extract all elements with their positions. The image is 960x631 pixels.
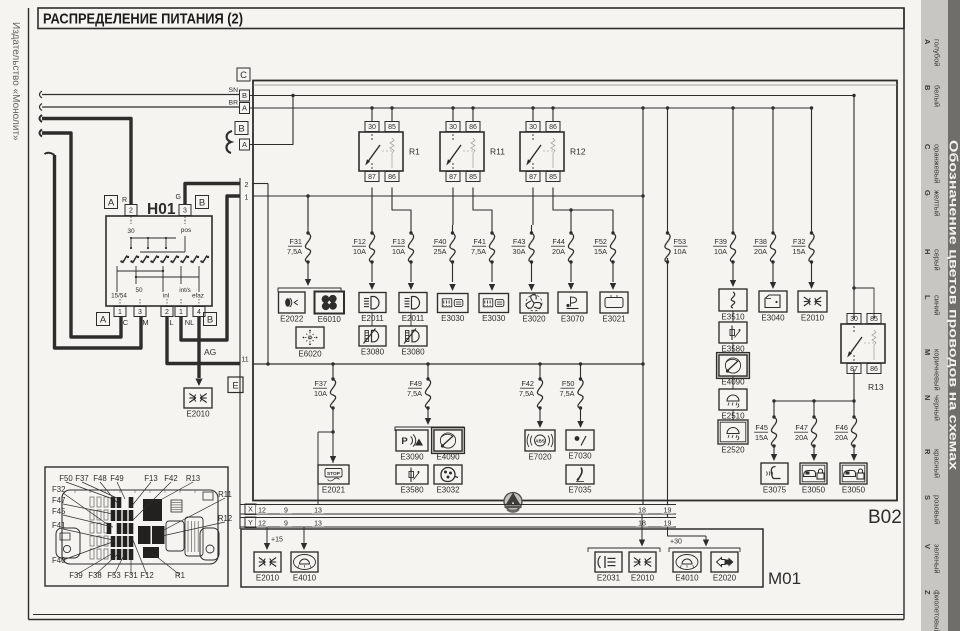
svg-text:BR: BR <box>229 100 239 107</box>
svg-text:E: E <box>232 381 238 392</box>
svg-text:РАСПРЕДЕЛЕНИЕ ПИТАНИЯ (2): РАСПРЕДЕЛЕНИЕ ПИТАНИЯ (2) <box>43 11 243 28</box>
svg-text:F38: F38 <box>754 237 767 246</box>
svg-text:R: R <box>923 449 932 455</box>
svg-text:B: B <box>238 123 244 134</box>
svg-text:F53: F53 <box>107 571 120 580</box>
svg-text:E4090: E4090 <box>436 453 460 462</box>
svg-text:оранжевый: оранжевый <box>933 144 942 183</box>
svg-text:1: 1 <box>179 309 183 316</box>
svg-text:E3040: E3040 <box>761 314 785 323</box>
svg-text:F47: F47 <box>795 423 808 432</box>
svg-text:E3020: E3020 <box>522 315 546 324</box>
svg-text:15A: 15A <box>793 247 806 256</box>
svg-text:7,5A: 7,5A <box>519 389 534 398</box>
svg-text:ABS: ABS <box>535 439 545 444</box>
svg-text:87: 87 <box>529 174 537 181</box>
svg-text:E2010: E2010 <box>256 574 280 583</box>
svg-text:E3080: E3080 <box>401 348 425 357</box>
svg-text:F38: F38 <box>88 571 101 580</box>
svg-text:F50: F50 <box>562 379 575 388</box>
svg-text:L: L <box>169 318 173 327</box>
svg-text:F40: F40 <box>434 237 447 246</box>
svg-text:87: 87 <box>368 174 376 181</box>
svg-text:25A: 25A <box>434 247 447 256</box>
svg-text:9: 9 <box>284 507 288 514</box>
svg-text:87: 87 <box>449 174 457 181</box>
svg-text:R12: R12 <box>218 514 232 523</box>
svg-text:R12: R12 <box>570 147 586 157</box>
svg-text:Z: Z <box>923 590 932 595</box>
svg-text:F53: F53 <box>674 237 687 246</box>
svg-text:7,5A: 7,5A <box>287 247 302 256</box>
svg-text:efaz: efaz <box>192 293 204 300</box>
svg-text:синий: синий <box>933 295 942 315</box>
svg-text:13: 13 <box>314 520 322 527</box>
svg-text:10A: 10A <box>314 389 327 398</box>
svg-text:13: 13 <box>314 507 322 514</box>
svg-text:F45: F45 <box>52 507 66 516</box>
svg-text:85: 85 <box>469 174 477 181</box>
svg-text:Обозначение цветов проводов на: Обозначение цветов проводов на схемах <box>947 140 959 471</box>
svg-text:2: 2 <box>165 309 169 316</box>
svg-text:E4010: E4010 <box>293 574 317 583</box>
svg-text:F50: F50 <box>59 474 73 483</box>
svg-text:белый: белый <box>933 85 942 107</box>
svg-text:9: 9 <box>284 520 288 527</box>
svg-text:N: N <box>923 395 932 400</box>
svg-text:pos: pos <box>181 227 192 234</box>
svg-text:10A: 10A <box>353 247 366 256</box>
svg-text:E3021: E3021 <box>602 315 626 324</box>
svg-text:85: 85 <box>549 174 557 181</box>
svg-text:C: C <box>240 70 247 81</box>
svg-text:B: B <box>207 314 213 325</box>
svg-text:M: M <box>142 318 148 327</box>
svg-text:18: 18 <box>638 507 646 514</box>
svg-text:R: R <box>122 197 127 204</box>
svg-text:10A: 10A <box>392 247 405 256</box>
svg-text:F42: F42 <box>521 379 534 388</box>
svg-text:C: C <box>123 318 129 327</box>
svg-text:L: L <box>923 295 932 300</box>
svg-text:E2520: E2520 <box>721 446 745 455</box>
svg-text:E3030: E3030 <box>441 314 465 323</box>
svg-text:20A: 20A <box>835 433 848 442</box>
svg-text:H: H <box>923 249 932 254</box>
svg-text:E2031: E2031 <box>597 574 621 583</box>
svg-text:фиолетовый: фиолетовый <box>933 590 942 631</box>
svg-text:F44: F44 <box>552 237 565 246</box>
svg-text:P: P <box>401 436 408 447</box>
svg-text:7,5A: 7,5A <box>471 247 486 256</box>
svg-text:STOP: STOP <box>327 471 341 477</box>
svg-text:M: M <box>923 349 932 355</box>
svg-text:E2010: E2010 <box>801 314 825 323</box>
svg-text:M01: M01 <box>768 569 801 588</box>
svg-text:E3032: E3032 <box>436 486 460 495</box>
svg-text:F48: F48 <box>93 474 106 483</box>
svg-text:V: V <box>923 544 932 549</box>
svg-text:A: A <box>100 314 107 325</box>
svg-text:+30: +30 <box>670 539 682 546</box>
svg-text:86: 86 <box>549 124 557 131</box>
svg-text:голубой: голубой <box>933 39 942 66</box>
svg-text:E3090: E3090 <box>400 453 424 462</box>
svg-text:F13: F13 <box>144 474 157 483</box>
svg-text:F32: F32 <box>793 237 806 246</box>
svg-text:F41: F41 <box>52 521 65 530</box>
svg-text:+15: +15 <box>271 537 283 544</box>
svg-text:R13: R13 <box>868 382 884 392</box>
svg-text:F12: F12 <box>140 571 153 580</box>
svg-text:красный: красный <box>933 449 942 478</box>
svg-text:F37: F37 <box>75 474 88 483</box>
svg-text:черный: черный <box>933 395 942 421</box>
svg-text:Y: Y <box>248 520 253 527</box>
svg-text:X: X <box>248 507 253 514</box>
svg-text:15/54: 15/54 <box>111 293 127 300</box>
svg-text:30: 30 <box>368 124 376 131</box>
svg-text:E2011: E2011 <box>402 314 425 323</box>
svg-text:30A: 30A <box>513 247 526 256</box>
svg-text:30: 30 <box>529 124 537 131</box>
svg-text:7,5A: 7,5A <box>559 389 574 398</box>
svg-text:розовый: розовый <box>933 495 942 524</box>
svg-text:85: 85 <box>388 124 396 131</box>
svg-text:F12: F12 <box>353 237 366 246</box>
svg-text:F49: F49 <box>409 379 422 388</box>
svg-text:E2020: E2020 <box>713 574 737 583</box>
svg-text:4: 4 <box>197 309 201 316</box>
svg-text:E3050: E3050 <box>802 486 826 495</box>
svg-text:F37: F37 <box>314 379 327 388</box>
svg-text:inl: inl <box>163 293 169 300</box>
svg-text:коричневый: коричневый <box>933 349 942 391</box>
svg-text:F39: F39 <box>714 237 727 246</box>
svg-text:R11: R11 <box>490 147 505 157</box>
svg-text:10A: 10A <box>674 247 687 256</box>
svg-text:F45: F45 <box>755 423 768 432</box>
svg-text:B: B <box>199 197 205 208</box>
svg-text:int/s: int/s <box>179 287 191 294</box>
svg-text:F49: F49 <box>110 474 123 483</box>
svg-text:2: 2 <box>129 208 133 215</box>
svg-text:20A: 20A <box>754 247 767 256</box>
svg-text:E3580: E3580 <box>400 486 424 495</box>
svg-text:F52: F52 <box>594 237 607 246</box>
svg-text:AG: AG <box>204 347 216 357</box>
svg-text:E7020: E7020 <box>528 453 552 462</box>
svg-text:F40: F40 <box>52 556 66 565</box>
svg-text:E4010: E4010 <box>675 574 699 583</box>
svg-text:E2010: E2010 <box>186 410 210 419</box>
svg-text:F47: F47 <box>52 496 65 505</box>
svg-text:19: 19 <box>664 520 672 527</box>
svg-text:3: 3 <box>138 309 142 316</box>
svg-text:E7035: E7035 <box>568 486 592 495</box>
svg-text:B: B <box>923 85 932 91</box>
svg-text:E3050: E3050 <box>842 486 866 495</box>
svg-text:12: 12 <box>258 520 266 527</box>
svg-text:10A: 10A <box>714 247 727 256</box>
svg-text:зеленый: зеленый <box>933 544 942 574</box>
svg-text:86: 86 <box>469 124 477 131</box>
svg-text:Издательство «Монолит»: Издательство «Монолит» <box>10 22 21 141</box>
svg-text:NL: NL <box>185 318 195 327</box>
svg-text:E7030: E7030 <box>568 452 592 461</box>
svg-text:SN: SN <box>229 87 239 94</box>
svg-text:2: 2 <box>245 182 249 189</box>
svg-text:19: 19 <box>664 507 672 514</box>
svg-text:желтый: желтый <box>933 190 942 216</box>
svg-text:E2010: E2010 <box>631 574 655 583</box>
svg-text:15A: 15A <box>594 247 607 256</box>
svg-text:G: G <box>923 190 932 196</box>
svg-text:B02: B02 <box>868 507 902 528</box>
svg-text:E2021: E2021 <box>322 486 346 495</box>
svg-text:G: G <box>176 194 181 201</box>
svg-text:E2011: E2011 <box>361 314 384 323</box>
svg-text:F31: F31 <box>289 237 302 246</box>
svg-text:A: A <box>108 197 115 208</box>
svg-text:15A: 15A <box>755 433 768 442</box>
svg-text:F42: F42 <box>164 474 177 483</box>
svg-text:A: A <box>923 39 932 45</box>
svg-text:R13: R13 <box>186 474 200 483</box>
svg-text:30: 30 <box>449 124 457 131</box>
svg-text:3: 3 <box>183 208 187 215</box>
svg-text:F13: F13 <box>392 237 405 246</box>
svg-text:R1: R1 <box>409 147 420 157</box>
svg-text:30: 30 <box>127 228 135 235</box>
svg-text:7,5A: 7,5A <box>407 389 422 398</box>
svg-text:E3075: E3075 <box>763 486 787 495</box>
svg-text:20A: 20A <box>795 433 808 442</box>
svg-text:12: 12 <box>258 507 266 514</box>
svg-text:11: 11 <box>241 357 248 364</box>
svg-text:50: 50 <box>135 287 143 294</box>
svg-text:E3080: E3080 <box>361 348 385 357</box>
svg-text:S: S <box>923 495 932 500</box>
svg-text:F41: F41 <box>473 237 486 246</box>
svg-text:E3030: E3030 <box>482 314 506 323</box>
svg-text:F46: F46 <box>835 423 848 432</box>
svg-text:E6010: E6010 <box>318 315 342 324</box>
svg-text:E3070: E3070 <box>561 315 585 324</box>
svg-text:A: A <box>242 140 247 149</box>
svg-text:86: 86 <box>388 174 396 181</box>
svg-text:1: 1 <box>245 195 249 202</box>
svg-text:86: 86 <box>870 366 878 373</box>
svg-text:F32: F32 <box>52 485 65 494</box>
svg-text:C: C <box>923 144 932 150</box>
svg-text:R11: R11 <box>218 490 232 499</box>
svg-text:E6020: E6020 <box>298 350 322 359</box>
svg-text:серый: серый <box>933 249 942 271</box>
svg-text:E2022: E2022 <box>280 315 304 324</box>
svg-text:A: A <box>242 104 247 113</box>
svg-text:1: 1 <box>118 309 122 316</box>
svg-text:F43: F43 <box>513 237 526 246</box>
svg-text:20A: 20A <box>552 247 565 256</box>
svg-text:B: B <box>242 91 247 100</box>
